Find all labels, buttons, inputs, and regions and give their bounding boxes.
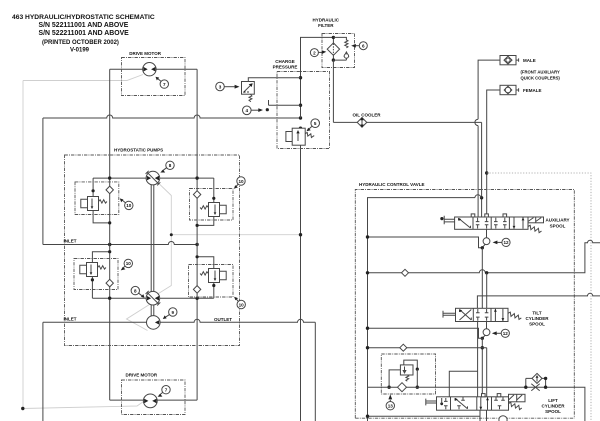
svg-text:DRIVE MOTOR: DRIVE MOTOR xyxy=(126,373,158,378)
relief UL valve xyxy=(88,197,99,211)
tilt spool valve U2 xyxy=(456,308,509,321)
svg-text:OIL COOLER: OIL COOLER xyxy=(353,113,382,118)
lift lever xyxy=(426,399,437,406)
svg-text:LIFT: LIFT xyxy=(548,398,558,403)
svg-text:8: 8 xyxy=(134,288,137,293)
relief LL valve xyxy=(87,263,98,277)
relief box upper-left xyxy=(75,182,119,215)
item 12a xyxy=(502,238,510,246)
relief LR valve xyxy=(209,269,220,283)
wire OUTLET line with hops xyxy=(43,319,315,322)
motor M1 circle xyxy=(143,62,156,75)
relief box lower-right xyxy=(189,265,234,298)
relief UL bottom connector xyxy=(93,211,110,223)
wire lift branch y347.7 xyxy=(368,347,487,349)
svg-text:SPOOL: SPOOL xyxy=(550,224,566,229)
wire return drop to reservoir xyxy=(314,322,316,421)
relief UR bottom connector xyxy=(197,217,214,226)
check diamond LL xyxy=(106,279,113,287)
aux detent xyxy=(528,217,544,223)
svg-text:10: 10 xyxy=(238,179,244,184)
node pump2-right xyxy=(195,297,198,300)
oil cooler line xyxy=(333,121,481,123)
check valve 12a xyxy=(486,229,488,238)
check diamond 13 xyxy=(398,383,407,392)
svg-text:CHARGE: CHARGE xyxy=(275,59,295,64)
item 7 top xyxy=(160,80,168,88)
pump P2 circle xyxy=(146,291,160,305)
wire loop left vertical xyxy=(109,69,111,400)
svg-text:QUICK COUPLERS): QUICK COUPLERS) xyxy=(521,76,561,81)
charge pump circle xyxy=(147,316,161,330)
pump line upper y178 xyxy=(93,177,214,179)
node y118 charge junction xyxy=(299,116,302,119)
svg-text:CYLINDER: CYLINDER xyxy=(541,404,565,409)
svg-text:S/N 522111001 AND ABOVE: S/N 522111001 AND ABOVE xyxy=(39,22,129,29)
svg-text:AUXILIARY: AUXILIARY xyxy=(545,218,569,223)
relief UR valve xyxy=(209,203,220,217)
wire aux riser to tilt xyxy=(486,273,488,309)
node relief top xyxy=(299,127,302,130)
relief box 13 xyxy=(381,354,435,394)
aux spool valve U1 xyxy=(455,214,528,229)
shutoff X xyxy=(531,384,539,391)
wire tilt work line xyxy=(477,293,600,308)
wire filter down to cooler xyxy=(332,60,334,122)
svg-text:3: 3 xyxy=(219,84,222,89)
wire risers to lift valve xyxy=(478,322,487,397)
wire loop right vertical xyxy=(196,69,198,400)
svg-text:CYLINDER: CYLINDER xyxy=(525,316,549,321)
node inlet-right loop xyxy=(195,243,198,246)
title block xyxy=(12,14,155,54)
node pump1-right xyxy=(195,176,198,179)
filter element xyxy=(327,43,339,55)
wire charge supply drop xyxy=(481,122,483,217)
drive motor box bottom xyxy=(122,380,186,415)
solenoid valve 3 xyxy=(242,82,255,95)
wire charge line drop to reservoir xyxy=(300,145,302,421)
item clipped at bottom xyxy=(499,416,507,421)
wire male line xyxy=(475,60,500,217)
light servo line 1 xyxy=(171,234,300,236)
svg-text:12: 12 xyxy=(503,240,509,245)
orifice diamond aux xyxy=(402,269,409,276)
wire lift gallery xyxy=(481,338,483,397)
item 12b xyxy=(501,329,509,337)
drive motor box top xyxy=(122,58,186,96)
svg-text:463 HYDRAULIC/HYDROSTATIC SCHE: 463 HYDRAULIC/HYDROSTATIC SCHEMATIC xyxy=(12,14,155,21)
wire tilt branch y328.2 xyxy=(368,328,483,338)
wire lift bypass rail y387.2 xyxy=(368,387,585,421)
male coupler xyxy=(500,56,516,65)
svg-text:INLET: INLET xyxy=(64,239,77,244)
anticavitation check xyxy=(526,378,546,387)
relief LL bottom connector xyxy=(91,277,93,299)
dotted cylinder line xyxy=(487,173,591,421)
svg-text:10: 10 xyxy=(126,261,132,266)
node charge top xyxy=(299,76,302,79)
item 9 xyxy=(169,308,177,316)
item 6 xyxy=(359,42,367,50)
light pump linkage vertical xyxy=(158,183,171,294)
wire lift work corner xyxy=(449,371,477,397)
svg-text:7: 7 xyxy=(165,388,168,393)
wire aux work line y272.8 xyxy=(368,240,600,273)
svg-text:6: 6 xyxy=(362,44,365,49)
node servo junction 1 xyxy=(299,233,302,236)
item 4 xyxy=(243,106,252,115)
svg-text:SPOOL: SPOOL xyxy=(545,409,561,414)
svg-text:SPOOL: SPOOL xyxy=(529,322,545,327)
item 3 xyxy=(216,82,225,91)
wire solenoid branch xyxy=(248,78,300,82)
svg-text:10: 10 xyxy=(239,302,245,307)
wire inlet gallery xyxy=(368,195,482,421)
pump P1 circle xyxy=(146,171,160,185)
relief UR top connector xyxy=(213,178,215,202)
wire mid gallery xyxy=(481,248,483,308)
hydrostatic pumps box xyxy=(65,155,240,346)
light gray case-drain line upper xyxy=(23,75,143,81)
tilt spring xyxy=(508,312,521,319)
light linkage chevron at charge pump xyxy=(127,304,152,331)
svg-text:5: 5 xyxy=(314,121,317,126)
node cylinder tap xyxy=(485,171,488,174)
item 8 bottom xyxy=(131,286,139,294)
svg-text:(FRONT AUXILIARY: (FRONT AUXILIARY xyxy=(521,70,560,75)
relief box lower-left xyxy=(74,259,118,290)
svg-text:2: 2 xyxy=(313,50,316,55)
svg-text:8: 8 xyxy=(169,163,172,168)
motor M2 circle xyxy=(143,394,157,408)
lift detent xyxy=(509,394,526,402)
svg-text:FEMALE: FEMALE xyxy=(523,88,542,93)
svg-text:TILT: TILT xyxy=(532,311,541,316)
charge relief valve 5 xyxy=(292,128,305,145)
svg-text:HYDRAULIC: HYDRAULIC xyxy=(313,18,340,23)
item 10 UL xyxy=(125,201,133,209)
female coupler xyxy=(500,85,516,94)
node test line xyxy=(299,104,302,107)
svg-text:PRESSURE: PRESSURE xyxy=(273,65,298,70)
svg-text:DRIVE MOTOR: DRIVE MOTOR xyxy=(129,51,161,56)
svg-text:7: 7 xyxy=(163,82,166,87)
relief box upper-right xyxy=(190,189,234,221)
svg-text:9: 9 xyxy=(172,310,175,315)
port relief valve xyxy=(400,365,413,375)
svg-text:V-0199: V-0199 xyxy=(70,48,90,54)
svg-text:FILTER: FILTER xyxy=(318,23,334,28)
test port 4 xyxy=(269,100,301,105)
svg-text:12: 12 xyxy=(503,331,509,336)
node pump1-left xyxy=(108,176,111,179)
item 7 bottom xyxy=(162,386,170,394)
tilt lever xyxy=(443,311,456,318)
svg-text:HYDRAULIC CONTROL VAVLE: HYDRAULIC CONTROL VAVLE xyxy=(359,182,425,187)
relief LL top connector xyxy=(92,252,109,263)
check diamond LR xyxy=(193,286,200,294)
wire filter-to-charge vertical xyxy=(301,37,334,118)
wire left suction riser upper xyxy=(42,118,44,245)
orifice diamond lift xyxy=(400,344,407,351)
svg-text:(PRINTED OCTOBER 2002): (PRINTED OCTOBER 2002) xyxy=(42,40,119,46)
wire left suction riser lower xyxy=(42,322,44,421)
lift spring xyxy=(509,402,522,409)
lift spool valve U3 xyxy=(437,394,509,411)
light gray case-drain line lower xyxy=(23,401,145,409)
filter bypass xyxy=(333,37,346,40)
wire charge feed y118 with hops xyxy=(43,115,301,118)
control valve box xyxy=(355,190,574,419)
item 8 top xyxy=(166,161,174,169)
node pump2-left xyxy=(108,297,111,300)
node inlet-left loop xyxy=(108,243,111,246)
wire bottom motor connections xyxy=(110,399,197,401)
svg-text:13: 13 xyxy=(388,404,394,409)
svg-text:S/N 522211001 AND ABOVE: S/N 522211001 AND ABOVE xyxy=(39,30,130,37)
svg-text:10: 10 xyxy=(126,203,132,208)
aux lever xyxy=(440,217,443,220)
wire top motor connections xyxy=(110,68,197,70)
item 13 xyxy=(386,402,394,410)
light gray reservoir vertical xyxy=(22,81,24,409)
wire INLET line upper xyxy=(43,242,197,245)
pump line lower y298 xyxy=(92,297,213,299)
charge pressure box xyxy=(277,72,330,149)
svg-text:HYDROSTATIC PUMPS: HYDROSTATIC PUMPS xyxy=(114,148,163,153)
svg-text:INLET: INLET xyxy=(64,317,77,322)
check valve 12b xyxy=(486,322,488,329)
item 5 xyxy=(311,119,320,128)
wire lift return to gallery xyxy=(368,410,487,421)
relief UL top connector xyxy=(92,178,94,196)
item 2 xyxy=(310,49,318,57)
item 10 LR xyxy=(237,300,245,308)
check diamond UR xyxy=(193,191,200,199)
wire aux branch y237 xyxy=(368,237,483,248)
hydraulic filter box xyxy=(322,34,355,68)
node servo left 1 xyxy=(170,233,173,236)
item 10 LL xyxy=(124,259,132,267)
relief LR bottom connector xyxy=(213,283,215,299)
pump shaft twin lines xyxy=(151,185,154,316)
svg-text:MALE: MALE xyxy=(523,58,536,63)
node reservoir dot xyxy=(21,407,24,410)
wire female line xyxy=(487,90,500,217)
relief LR top connector xyxy=(197,257,214,269)
item 10 UR xyxy=(237,177,245,185)
check diamond UL xyxy=(106,186,113,194)
svg-text:4: 4 xyxy=(246,108,249,113)
svg-text:OUTLET: OUTLET xyxy=(214,317,232,322)
